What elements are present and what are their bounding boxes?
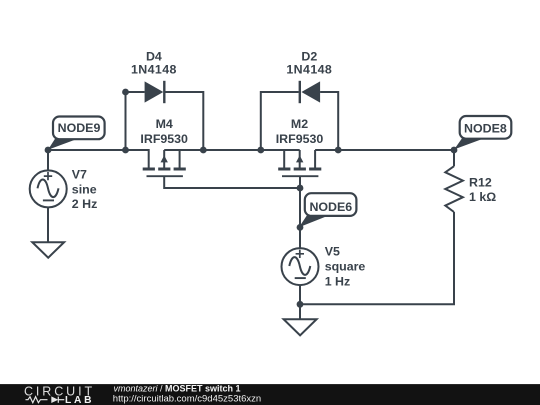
node dot D4 left bottom [122, 147, 129, 154]
ground symbol under V5 [284, 319, 317, 335]
svg-text:V7: V7 [72, 167, 87, 181]
node dot NODE8/R12 [451, 147, 458, 154]
mosfet M4 body arrow [161, 155, 168, 162]
svg-text:1 kΩ: 1 kΩ [469, 190, 496, 204]
node label NODE9 [48, 117, 105, 150]
mosfet M2 channel bars [278, 168, 321, 171]
svg-text:1N4148: 1N4148 [131, 62, 177, 76]
mosfet M4 channel bars [143, 168, 186, 171]
V5 minus sign [295, 277, 306, 279]
node dot NODE6 anchor [297, 224, 304, 231]
node dot D2 right bottom [335, 147, 342, 154]
node dot D4 right bottom [200, 147, 207, 154]
mosfet M2 gate wire down [299, 176, 301, 188]
svg-text:M2: M2 [291, 117, 308, 131]
node dot V7/NODE9 [45, 147, 52, 154]
diode D2 [301, 81, 320, 102]
wire M4 source segment (M4 arrow top to M2 arrow top) [164, 149, 300, 151]
wire node6 vertical (gate junction to V5 top) [299, 188, 301, 248]
svg-text:1N4148: 1N4148 [286, 62, 332, 76]
footer bar [0, 384, 540, 405]
resistor R12 zigzag [445, 166, 463, 212]
node dot D2 left bottom [257, 147, 264, 154]
wire M4 right stub [164, 150, 179, 168]
component labels [131, 49, 332, 146]
diode D2 loop wires [261, 92, 338, 150]
V5 sine symbol [289, 257, 310, 275]
node dot gate junction [297, 185, 304, 192]
V7 plus sign [44, 172, 52, 180]
V5 plus sign [296, 250, 304, 258]
svg-text:V5: V5 [325, 244, 340, 258]
diode D4 loop wires [126, 92, 204, 150]
svg-text:NODE9: NODE9 [58, 121, 101, 135]
svg-text:vmontazeri / MOSFET switch 1: vmontazeri / MOSFET switch 1 [114, 383, 241, 393]
wire M2 left stub [284, 150, 300, 168]
wire M2 right segment (M2 right stub to R12 top corner) [315, 150, 454, 168]
mosfet M4 gate bar [147, 175, 183, 177]
svg-text:square: square [325, 259, 366, 273]
svg-text:2 Hz: 2 Hz [72, 197, 97, 211]
svg-text:IRF9530: IRF9530 [276, 132, 324, 146]
ground symbol under V7 [32, 242, 64, 258]
voltage source V5 circle [282, 248, 319, 285]
node dot D4 left top [122, 89, 129, 96]
mosfet M4 gate wire to node6 net [164, 176, 300, 188]
wire V5 bottom to ground and R12 bottom [300, 212, 454, 319]
wire V7 top [47, 150, 49, 170]
svg-text:LAB: LAB [65, 395, 94, 405]
svg-text:D4: D4 [146, 49, 162, 63]
node label NODE8 [454, 116, 511, 149]
svg-text:M4: M4 [156, 117, 173, 131]
node label NODE6 [299, 193, 356, 227]
wire V7 bottom to ground [47, 207, 49, 242]
V7 sine symbol [38, 179, 59, 197]
footer logo resistor-diode squiggle [26, 397, 65, 403]
svg-text:D2: D2 [301, 49, 317, 63]
svg-text:IRF9530: IRF9530 [140, 132, 188, 146]
svg-text:http://circuitlab.com/c9d45z53: http://circuitlab.com/c9d45z53t6xzn [113, 394, 261, 405]
svg-text:R12: R12 [469, 175, 492, 189]
voltage source V7 circle [30, 170, 67, 207]
mosfet M2 body arrow [296, 155, 303, 162]
mosfet M2 gate bar [282, 175, 318, 177]
svg-text:NODE8: NODE8 [464, 122, 507, 136]
node dot V5 bottom [297, 301, 304, 308]
svg-text:1 Hz: 1 Hz [325, 274, 350, 288]
svg-text:NODE6: NODE6 [309, 200, 352, 214]
svg-text:sine: sine [72, 182, 97, 196]
diode D4 [145, 81, 164, 102]
wire main left segment (V7 top to M4 drain) [48, 150, 149, 168]
V7 minus sign [43, 199, 54, 201]
